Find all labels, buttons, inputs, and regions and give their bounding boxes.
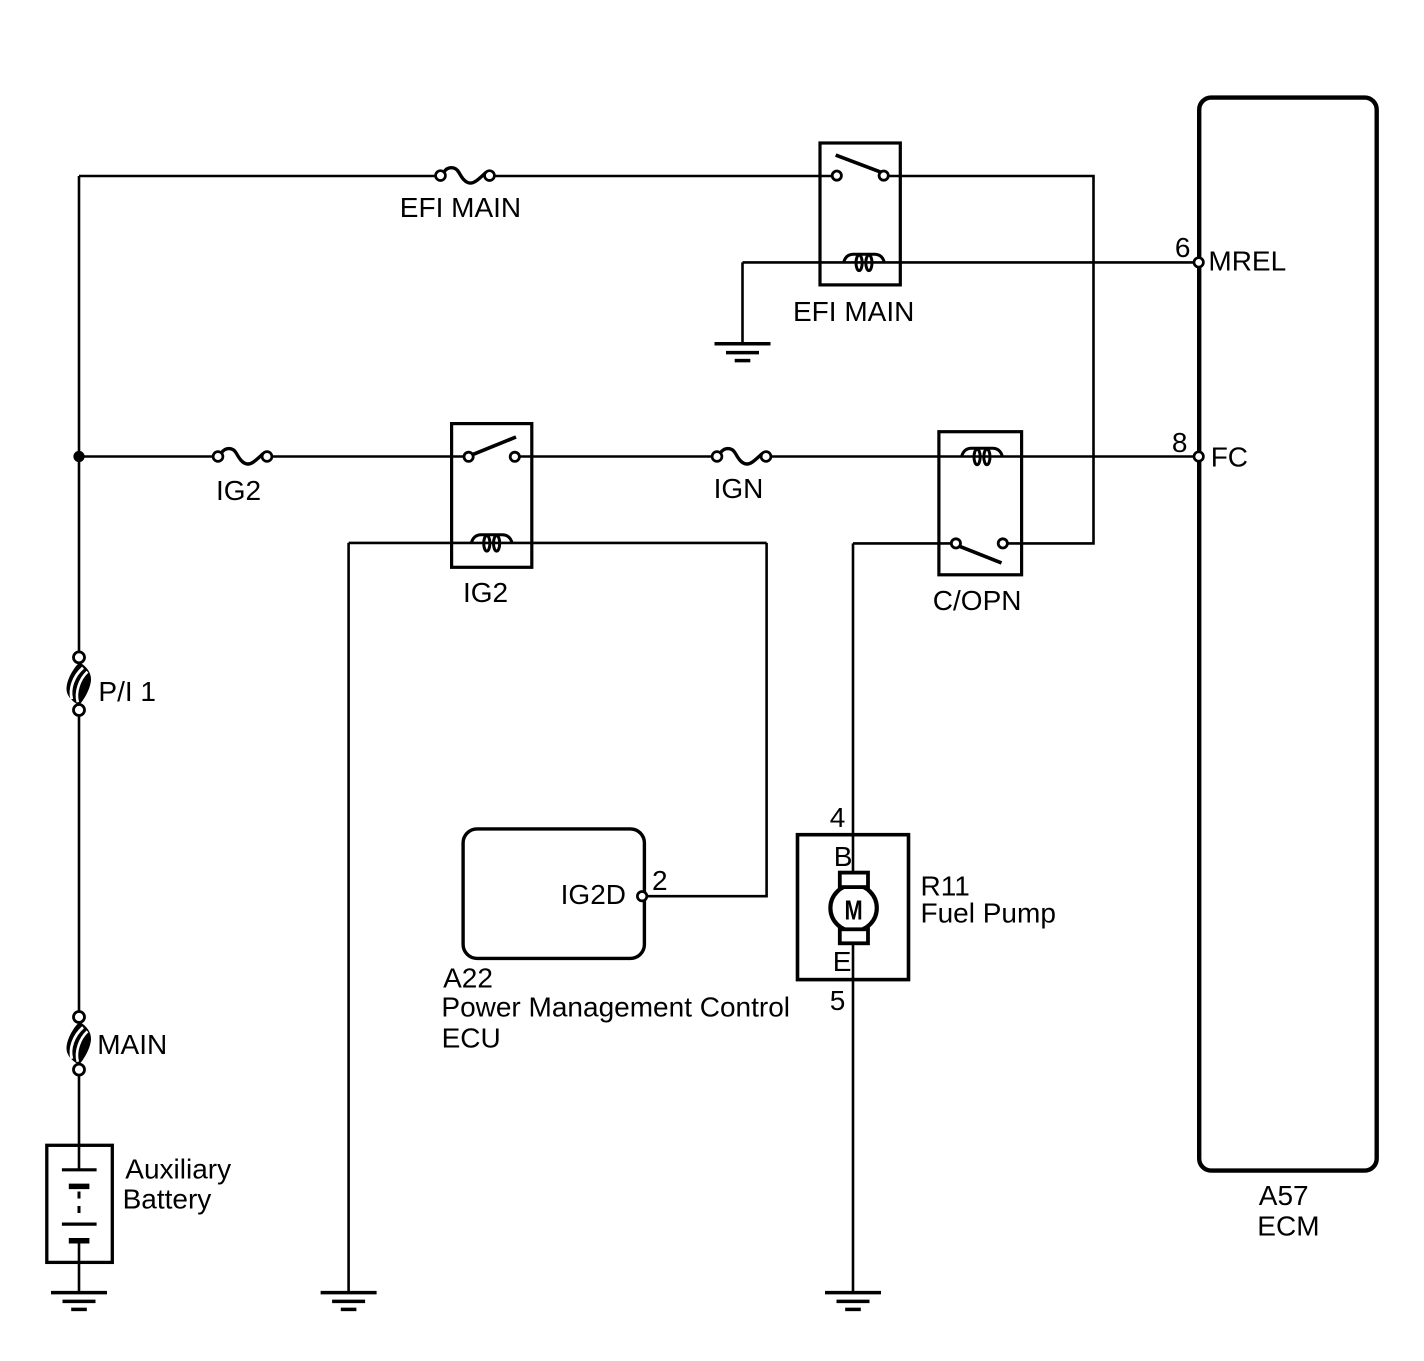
relay IG2 switch blade xyxy=(472,437,516,455)
pin 2 circle IG2D xyxy=(637,892,646,901)
battery plate 4 short xyxy=(69,1238,90,1244)
wire: IG2 relay coil net horizontal y543 xyxy=(349,542,767,545)
svg-text:ECU: ECU xyxy=(442,1023,501,1054)
svg-text:Power Management Control: Power Management Control xyxy=(441,992,790,1023)
wire: right vertical x766.6 down to IG2D pin 2 xyxy=(647,543,767,896)
ECM A57 box xyxy=(1199,98,1377,1171)
svg-text:B: B xyxy=(834,841,853,872)
wire: EFI MAIN relay right contact to C/OPN right contact (corner at x1093.5) xyxy=(888,176,1093,543)
wire: fuel pump vertical x853 down to ground xyxy=(852,543,855,1292)
svg-text:4: 4 xyxy=(830,802,846,833)
svg-text:5: 5 xyxy=(830,985,846,1016)
relay IG2 box xyxy=(452,424,532,568)
wire: C/OPN switch to fuel pump vertical x853 xyxy=(853,542,951,545)
svg-text:Fuel Pump: Fuel Pump xyxy=(921,898,1056,929)
svg-text:R11: R11 xyxy=(921,870,970,901)
relay EFI MAIN coil xyxy=(844,254,885,270)
relay EFI MAIN switch contact left xyxy=(832,171,841,180)
svg-text:IG2D: IG2D xyxy=(561,879,626,910)
wire: battery rail top vertical (x=79, y176 to P/I1) xyxy=(78,176,81,652)
battery plate 3 long xyxy=(62,1222,97,1225)
relay IG2 switch contact right xyxy=(510,452,519,461)
svg-text:EFI MAIN: EFI MAIN xyxy=(793,296,914,327)
fuse IGN xyxy=(712,449,771,464)
svg-text:P/I 1: P/I 1 xyxy=(98,676,156,707)
svg-text:MAIN: MAIN xyxy=(97,1029,167,1060)
svg-text:IG2: IG2 xyxy=(463,577,508,608)
wire: IG2 relay right contact to IGN fuse xyxy=(520,455,713,458)
svg-text:A22: A22 xyxy=(443,962,493,993)
battery dashed cell link xyxy=(78,1192,81,1221)
wire: IG2 fuse to IG2 relay left contact xyxy=(272,455,464,458)
svg-text:ECM: ECM xyxy=(1257,1210,1319,1241)
svg-text:Battery: Battery xyxy=(123,1184,212,1215)
wire: MREL net from ground stub through EFI MAIN relay coil to pin 6 xyxy=(743,261,1195,264)
relay C/OPN switch contact right xyxy=(998,539,1007,548)
ground: battery ground xyxy=(51,1293,107,1310)
wire: EFI MAIN fuse to relay box xyxy=(494,175,832,178)
wire: top horizontal to EFI MAIN fuse xyxy=(79,175,436,178)
fusible link P/I 1 xyxy=(67,652,92,716)
svg-text:FC: FC xyxy=(1211,441,1248,472)
wire: battery negative to ground xyxy=(78,1241,81,1293)
motor brush top xyxy=(840,873,868,888)
battery plate 2 short xyxy=(69,1184,90,1190)
svg-text:Auxiliary: Auxiliary xyxy=(125,1154,231,1185)
fusible link MAIN xyxy=(67,1012,92,1076)
wire: battery rail from MAIN into battery to first plate xyxy=(78,1075,81,1170)
wire: left vertical x348.6 down to ground xyxy=(347,543,350,1293)
svg-text:8: 8 xyxy=(1172,427,1188,458)
wire: IGN fuse to FC pin (through C/OPN coil) xyxy=(771,455,1194,458)
fuse EFI MAIN xyxy=(436,168,495,183)
relay EFI MAIN box xyxy=(820,143,900,285)
svg-text:IG2: IG2 xyxy=(216,475,261,506)
svg-text:IGN: IGN xyxy=(714,473,764,504)
svg-text:E: E xyxy=(833,946,852,977)
pin 8 FC circle xyxy=(1194,452,1203,461)
ground: EFI MAIN relay coil ground xyxy=(715,344,771,361)
wire: battery rail between P/I 1 and MAIN xyxy=(78,716,81,1012)
svg-text:MREL: MREL xyxy=(1208,245,1286,276)
wire: main row from junction to IG2 fuse xyxy=(79,455,213,458)
relay EFI MAIN switch blade xyxy=(836,155,883,173)
relay C/OPN switch blade xyxy=(960,546,1002,563)
svg-text:M: M xyxy=(845,895,863,926)
fuse IG2 xyxy=(213,449,272,464)
svg-text:2: 2 xyxy=(652,865,668,896)
ground: fuel pump ground x853 xyxy=(825,1293,881,1310)
relay C/OPN switch contact left xyxy=(951,539,960,548)
motor brush bottom xyxy=(840,929,868,943)
svg-text:EFI MAIN: EFI MAIN xyxy=(400,192,521,223)
relay EFI MAIN switch contact right xyxy=(879,171,888,180)
ground: middle ground x348.6 xyxy=(321,1293,377,1310)
relay C/OPN box xyxy=(939,432,1022,575)
battery box xyxy=(47,1145,113,1262)
junction dot at battery rail / main row xyxy=(73,451,84,462)
svg-text:6: 6 xyxy=(1175,232,1191,263)
svg-text:C/OPN: C/OPN xyxy=(933,585,1022,616)
svg-text:A57: A57 xyxy=(1259,1180,1309,1211)
relay IG2 switch contact left xyxy=(464,452,473,461)
A22 Power Management Control ECU box xyxy=(463,829,644,959)
motor circle xyxy=(830,885,876,931)
battery plate 1 long xyxy=(62,1168,97,1171)
fuel pump R11 box xyxy=(798,835,909,980)
pin 6 MREL circle xyxy=(1194,258,1203,267)
relay C/OPN coil xyxy=(962,448,1003,464)
wire: ground stub below EFI MAIN relay coil xyxy=(741,262,744,343)
relay IG2 coil xyxy=(471,535,512,551)
